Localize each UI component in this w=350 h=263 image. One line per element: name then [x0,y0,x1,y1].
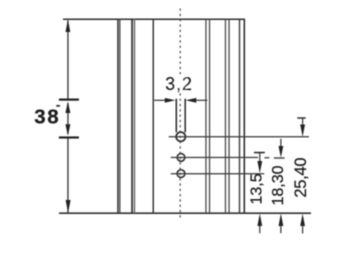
svg-text:25,40: 25,40 [292,158,310,198]
svg-text:13,5: 13,5 [249,173,266,204]
svg-text:38: 38 [34,106,60,129]
svg-text:3,2: 3,2 [165,74,192,94]
svg-text:18,30: 18,30 [270,165,287,205]
